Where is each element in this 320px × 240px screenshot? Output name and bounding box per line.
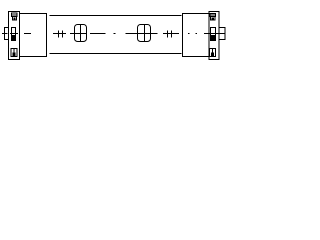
right stub shaft [219,28,225,40]
left top screw body [13,17,17,21]
right bottom screw inner line [212,49,214,57]
right groove tick 1 [167,31,169,38]
left flange plate [9,12,20,60]
left top screw tip [14,18,16,21]
right groove tick 2 [171,31,173,38]
left middle hub inner [13,36,15,41]
right middle hub [211,28,216,41]
centerline [2,33,226,35]
coupling B outline [138,25,151,42]
right top screw body [211,17,216,21]
left bottom screw inner line [13,49,15,57]
right bottom screw body [210,49,216,57]
right bearing block [183,14,210,57]
right top screw tip [212,18,215,21]
tube bottom line [50,53,182,55]
right top screw head [210,14,216,17]
left top screw head [12,13,18,17]
coupling A divider [80,25,82,42]
left top screw slot [12,14,18,16]
right flange plate [209,12,219,60]
tube top line [50,15,182,17]
left middle hub [12,28,16,41]
right top screw slot [210,14,216,16]
left groove tick 2 [62,31,64,38]
coupling B divider [144,25,146,42]
coupling A outline [75,25,87,42]
left bottom screw head [13,53,16,57]
left bearing block [20,14,47,57]
left groove tick 1 [58,31,60,38]
left bottom screw body [11,49,17,57]
left stub shaft [5,28,9,40]
right middle hub inner [212,36,215,41]
right bottom screw head [211,53,214,57]
